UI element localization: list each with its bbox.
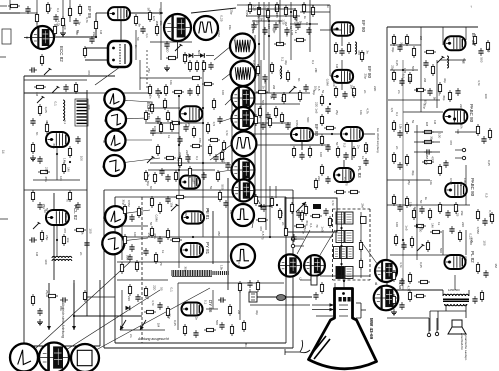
resistor Re1 (290, 202, 293, 214)
svg-text:0,1: 0,1 (170, 288, 174, 293)
capacitor C35 (303, 84, 308, 92)
wire (148, 107, 180, 109)
wire (148, 169, 215, 171)
resistor R70 (352, 86, 355, 98)
wire (290, 2, 292, 60)
wire (96, 12, 108, 14)
svg-text:15k: 15k (92, 32, 96, 37)
svg-text:500: 500 (418, 227, 422, 232)
wire (428, 318, 430, 333)
resistor Ra11 (174, 170, 177, 182)
control box part (361, 217, 367, 224)
junction (258, 8, 260, 10)
svg-text:0,5M: 0,5M (449, 178, 453, 185)
arrow: pot wiper (296, 202, 306, 212)
yoke connector (249, 292, 257, 302)
svg-text:1M: 1M (278, 20, 282, 25)
wire (420, 27, 422, 112)
tube PY 81 (181, 243, 203, 257)
svg-text:500: 500 (215, 320, 219, 325)
resistor R66 (334, 42, 337, 54)
svg-text:4,7k: 4,7k (407, 286, 411, 292)
wire under winding (172, 276, 212, 278)
wire (341, 83, 343, 90)
wire (36, 0, 38, 26)
resistor Ra2 (159, 122, 162, 134)
ground (164, 65, 170, 71)
svg-text:0,1: 0,1 (177, 157, 181, 162)
svg-text:470: 470 (357, 50, 361, 55)
svg-text:0,25: 0,25 (487, 160, 491, 166)
wire: sync box right (285, 197, 287, 343)
resistor R109 (405, 196, 408, 208)
trimmer (437, 56, 444, 63)
capacitor C32 (342, 91, 347, 99)
coil L5 (447, 56, 449, 68)
svg-text:2M: 2M (272, 85, 276, 90)
svg-text:3n: 3n (184, 105, 188, 109)
svg-text:0,25: 0,25 (253, 5, 257, 11)
test image circle B1 (375, 260, 397, 282)
wire (343, 276, 345, 288)
tube PL 81 (182, 211, 204, 223)
resistor R107 (405, 154, 408, 166)
junction (202, 122, 204, 124)
svg-text:220: 220 (317, 176, 321, 181)
svg-text:2n: 2n (194, 317, 198, 321)
svg-text:1250/500: 1250/500 (448, 288, 460, 292)
svg-text:470: 470 (63, 228, 67, 233)
resistor R32 (163, 98, 166, 110)
wire (437, 311, 439, 330)
svg-text:70: 70 (272, 27, 276, 31)
wire (177, 283, 179, 330)
control unit block B2 (336, 231, 353, 243)
test image circle C1 (279, 254, 301, 276)
wire (329, 5, 331, 76)
wire: pill A to pill B (120, 20, 122, 42)
leader line (105, 210, 150, 216)
wire (252, 20, 282, 22)
capacitor C17 (177, 136, 182, 144)
resistor Ra4 (170, 121, 182, 124)
capacitor C64 (219, 322, 224, 330)
wire (121, 226, 123, 260)
wire (0, 5, 7, 7)
resistor R90 (392, 34, 395, 46)
capacitor Ca6 (201, 172, 206, 180)
svg-text:0,1: 0,1 (402, 74, 406, 79)
wire (150, 162, 230, 164)
resistor R18 (31, 294, 34, 306)
resistor R39 (153, 172, 156, 184)
wire (24, 92, 150, 94)
resistor Ra12 (188, 166, 191, 178)
junction (160, 12, 162, 14)
svg-text:1M: 1M (351, 92, 355, 97)
svg-text:1n5: 1n5 (315, 108, 319, 113)
leader line (220, 118, 232, 122)
svg-text:470: 470 (259, 226, 263, 231)
resistor Rd6 (196, 84, 199, 96)
wire (183, 55, 188, 57)
resistor R16 (62, 234, 65, 246)
wire (246, 15, 300, 17)
resistor R82 (308, 146, 311, 158)
svg-text:30p: 30p (411, 170, 415, 175)
wire (260, 60, 262, 210)
wire (206, 308, 218, 310)
svg-text:470: 470 (449, 140, 453, 145)
resistor R76 (298, 90, 301, 102)
svg-text:10k: 10k (429, 180, 433, 185)
control unit block B4 (336, 267, 353, 279)
capacitor Cd2 (155, 88, 160, 96)
capacitor C27 (157, 302, 162, 310)
tube DY 86 (182, 303, 203, 316)
arrow: to deflection coils (47, 283, 51, 330)
wire (295, 245, 304, 247)
wire (330, 75, 332, 77)
svg-text:1n5: 1n5 (487, 47, 491, 52)
svg-text:5k: 5k (299, 21, 303, 25)
resistor R103 (422, 140, 434, 143)
resistor R62 (302, 2, 305, 14)
wire (300, 11, 330, 13)
resistor R44 (218, 190, 221, 202)
resistor R113 (454, 202, 457, 214)
svg-text:2n: 2n (134, 45, 138, 49)
resistor Rd5 (172, 90, 184, 93)
resistor R133 (137, 206, 140, 218)
test image circle E (232, 107, 255, 130)
wire: edge stub (0, 218, 8, 220)
svg-text:0,5: 0,5 (317, 86, 321, 91)
wire (465, 230, 467, 255)
svg-text:70: 70 (344, 182, 348, 186)
scope waveform P (105, 206, 126, 227)
capacitor C14 (164, 41, 169, 49)
resistor R36 (212, 98, 215, 110)
wire (121, 290, 123, 330)
resistor Ra5 (192, 126, 195, 138)
capacitor C34 (271, 92, 276, 100)
svg-text:3n: 3n (77, 22, 81, 26)
svg-text:15k: 15k (228, 25, 232, 30)
svg-text:0,25: 0,25 (44, 107, 48, 113)
scope waveform C (231, 61, 256, 86)
wire (239, 283, 241, 320)
svg-text:15k: 15k (399, 124, 403, 129)
wire (388, 99, 440, 101)
svg-text:1M: 1M (284, 22, 288, 27)
resistor R80 (324, 126, 336, 129)
wire (269, 186, 271, 237)
wire (250, 296, 312, 298)
junction (258, 43, 260, 45)
svg-text:0,5M: 0,5M (295, 120, 299, 127)
wire (56, 147, 58, 180)
capacitor C19 (165, 174, 170, 182)
resistor R85 (364, 142, 367, 154)
wire: control column rail 2 (360, 212, 362, 278)
resistor R115 (430, 230, 442, 233)
svg-text:50: 50 (149, 222, 153, 226)
svg-text:10k: 10k (279, 70, 283, 75)
capacitor C23 (157, 236, 162, 244)
svg-text:50: 50 (157, 95, 161, 99)
capacitor Ca3 (213, 154, 218, 162)
capacitor C1 (53, 14, 58, 22)
resistor R0a (8, 4, 20, 7)
wire (290, 144, 320, 146)
wire: control column rail (341, 212, 343, 278)
svg-text:100: 100 (408, 77, 412, 82)
capacitor C58 (261, 204, 266, 212)
wire (74, 315, 142, 317)
resistor R105 (438, 164, 441, 176)
svg-text:↑: ↑ (470, 4, 472, 9)
svg-text:2M: 2M (425, 155, 429, 160)
svg-text:10k: 10k (169, 80, 173, 85)
resistor R149 (490, 212, 493, 224)
trimmer (52, 86, 59, 93)
resistor R17 (74, 228, 86, 231)
leader line (254, 192, 260, 204)
tube EF 80 (IF1) (332, 22, 354, 35)
resistor R59 (275, 2, 278, 14)
wire (341, 60, 343, 70)
resistor R35 (164, 156, 176, 159)
test image circle D (232, 87, 255, 110)
svg-text:0,5: 0,5 (390, 108, 394, 113)
wire: sync box top (115, 196, 286, 198)
wire (414, 131, 443, 133)
svg-text:100: 100 (80, 156, 84, 161)
svg-text:70: 70 (261, 236, 265, 240)
svg-text:10k: 10k (59, 176, 63, 181)
svg-text:15k: 15k (280, 97, 284, 102)
capacitor C49 (443, 160, 448, 168)
svg-text:1M: 1M (350, 85, 354, 90)
svg-text:1M: 1M (295, 17, 299, 22)
svg-text:8n: 8n (35, 132, 39, 136)
svg-text:10k: 10k (359, 110, 363, 115)
resistor Re2 (304, 204, 307, 216)
capacitor C3 (29, 67, 37, 72)
resistor Rd1 (34, 85, 46, 88)
svg-text:2n: 2n (395, 146, 399, 150)
wire (0, 12, 20, 14)
svg-text:30p: 30p (391, 47, 395, 52)
capacitor C55 (401, 242, 406, 250)
svg-text:0,5M: 0,5M (155, 215, 159, 222)
svg-text:1n5: 1n5 (403, 68, 407, 73)
resistor Rd3 (148, 84, 151, 96)
trimmer (417, 244, 424, 251)
wire (62, 0, 64, 30)
capacitor C31 (339, 48, 344, 56)
wire: remote box dashed right (369, 209, 371, 280)
resistor R67 (347, 42, 350, 54)
capacitor C32 (284, 27, 289, 35)
wire (363, 133, 375, 135)
junction (329, 103, 331, 105)
svg-text:100: 100 (44, 259, 48, 264)
wire (33, 179, 80, 181)
resistor R73 (286, 70, 289, 82)
svg-text:100: 100 (395, 222, 399, 227)
wire (160, 2, 162, 60)
svg-text:C: C (299, 277, 302, 281)
resistor R58 (266, 8, 269, 20)
svg-text:PABC 80: PABC 80 (469, 104, 474, 123)
capacitor C53 (445, 210, 450, 218)
svg-text:3n: 3n (146, 174, 150, 178)
resistor Rc1 (254, 114, 257, 126)
svg-text:30p: 30p (400, 42, 404, 47)
svg-text:PL 82: PL 82 (470, 251, 475, 263)
resistor R52 (144, 286, 147, 298)
resistor R117 (394, 234, 397, 246)
svg-text:8n: 8n (149, 186, 153, 190)
svg-text:25p: 25p (391, 65, 395, 70)
capacitor C30 (262, 27, 267, 35)
tube EF 80 (sync) (341, 127, 363, 141)
svg-text:470: 470 (87, 70, 91, 75)
resistor Re4 (328, 216, 331, 228)
svg-text:500: 500 (197, 50, 201, 55)
capacitor C62 (129, 244, 134, 252)
resistor R15 (68, 190, 71, 202)
capacitor C6 (75, 136, 80, 144)
resistor Ra1 (144, 110, 147, 122)
leader line (104, 99, 152, 102)
resistor R12 (62, 162, 65, 174)
resistor R14 (40, 230, 43, 242)
resistor R134 (123, 234, 126, 246)
svg-text:25p: 25p (303, 226, 307, 231)
control unit block B1 (336, 212, 353, 224)
capacitor C10 (84, 240, 89, 248)
leader line (36, 262, 130, 348)
terminal (291, 244, 294, 247)
resistor R141 (408, 290, 411, 302)
svg-text:0,25: 0,25 (252, 60, 256, 66)
resistor R68 (360, 50, 363, 62)
resistor R41 (150, 196, 153, 208)
svg-text:0,1: 0,1 (56, 8, 60, 13)
trimmer (44, 68, 51, 75)
resistor R120 (392, 270, 395, 282)
wire (237, 4, 246, 6)
wire (56, 225, 58, 256)
svg-text:5k: 5k (147, 8, 151, 12)
svg-text:0,1: 0,1 (237, 262, 241, 267)
junction (309, 23, 311, 25)
svg-text:470: 470 (431, 156, 435, 161)
resistor R104 (422, 160, 434, 163)
resistor R37 (206, 122, 209, 134)
svg-text:15k: 15k (147, 232, 151, 237)
tube EF 89 (108, 7, 130, 20)
junction (343, 280, 345, 282)
svg-text:O: O (102, 165, 105, 169)
svg-text:1k: 1k (424, 197, 428, 201)
capacitor C44 (399, 78, 404, 86)
tube PCF 80 (180, 176, 200, 189)
wire (194, 55, 200, 57)
wire (53, 193, 55, 280)
resistor R93 (424, 50, 436, 53)
capacitor C63 (193, 330, 198, 338)
svg-text:0,5M: 0,5M (326, 79, 330, 86)
svg-text:25p: 25p (230, 9, 234, 14)
wire (465, 27, 467, 40)
svg-text:2n: 2n (79, 252, 83, 256)
svg-text:10k: 10k (313, 86, 317, 91)
svg-text:220: 220 (127, 296, 131, 301)
resistor R31 (150, 102, 153, 114)
trimmer (37, 96, 44, 103)
svg-text:30p: 30p (187, 157, 191, 162)
svg-text:2M: 2M (423, 78, 427, 83)
svg-text:220: 220 (185, 150, 189, 155)
resistor R72 (270, 62, 273, 74)
arrow (120, 320, 126, 330)
resistor R101 (405, 122, 408, 134)
svg-text:0,5M: 0,5M (488, 210, 492, 217)
svg-text:2M: 2M (155, 21, 159, 26)
capacitor C16 (155, 116, 160, 124)
resistor R84 (352, 146, 355, 158)
svg-text:1k: 1k (161, 250, 165, 254)
wire (85, 59, 108, 61)
tube EF 80 (video) (291, 128, 313, 141)
svg-text:100: 100 (221, 90, 225, 95)
tube PABC 80 (444, 110, 468, 124)
wire (445, 304, 447, 311)
coil L2b (52, 259, 72, 261)
capacitor C68 (478, 48, 483, 56)
leader line (105, 139, 152, 141)
svg-text:4,7k: 4,7k (151, 300, 155, 306)
svg-text:2M: 2M (280, 211, 284, 216)
wire (139, 60, 141, 90)
resistor R125 (254, 194, 257, 206)
svg-text:2n: 2n (362, 52, 366, 56)
resistor R63 (311, 5, 314, 17)
svg-text:500: 500 (261, 100, 265, 105)
ground (60, 30, 66, 36)
capacitor C61 (129, 214, 134, 222)
svg-text:2n: 2n (187, 123, 191, 127)
wire (455, 149, 462, 151)
svg-text:8n: 8n (461, 60, 465, 64)
resistor R87 (314, 178, 317, 190)
dark component in box (313, 204, 321, 209)
svg-text:220: 220 (153, 285, 157, 290)
svg-text:1M: 1M (62, 158, 66, 163)
svg-text:0,1: 0,1 (309, 223, 313, 228)
wire: remote box dashed top (333, 208, 371, 210)
tube V2 EM 84 indicator (164, 14, 191, 41)
wire (442, 290, 444, 296)
leader line (248, 257, 255, 262)
wire (250, 144, 330, 146)
resistor R132 (123, 204, 126, 216)
wire: video line (117, 236, 332, 238)
